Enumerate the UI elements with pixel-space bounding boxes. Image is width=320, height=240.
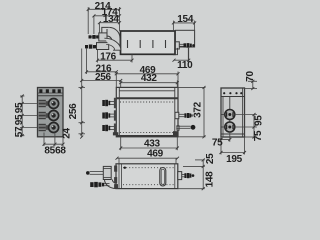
svg-text:95: 95 [254,115,265,126]
svg-text:154: 154 [177,14,194,25]
svg-text:148: 148 [205,171,216,188]
svg-text:176: 176 [100,52,117,63]
svg-text:68: 68 [55,145,66,156]
svg-text:75: 75 [212,137,223,148]
svg-text:195: 195 [226,154,243,165]
svg-text:256: 256 [68,103,79,120]
svg-text:25: 25 [205,153,216,164]
svg-text:95: 95 [14,102,25,113]
svg-text:95: 95 [14,114,25,125]
svg-text:432: 432 [141,73,158,84]
svg-text:110: 110 [177,60,193,71]
svg-text:75: 75 [253,130,264,141]
svg-text:256: 256 [95,72,112,83]
svg-text:372: 372 [192,101,203,118]
svg-text:85: 85 [44,145,55,156]
svg-text:70: 70 [245,71,256,82]
svg-text:469: 469 [147,149,164,160]
svg-text:134: 134 [103,14,120,25]
svg-text:57: 57 [14,126,25,137]
svg-text:24: 24 [62,128,73,139]
